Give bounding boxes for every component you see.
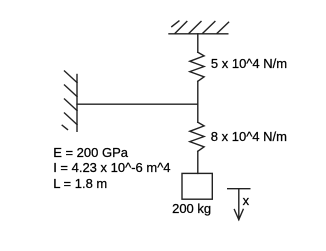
ceiling hatch 4 bbox=[217, 22, 229, 33]
label spring k2 value bbox=[211, 130, 287, 143]
mass block 200 kg bbox=[182, 173, 212, 199]
wall hatch 2 bbox=[65, 85, 78, 97]
ceiling hatch 2 bbox=[189, 22, 201, 34]
cantilever beam bbox=[77, 103, 198, 105]
ceiling fixed support plate bbox=[169, 33, 228, 35]
spring k2 (8 x 10^4 N/m) bbox=[190, 122, 204, 151]
x coordinate arrow shaft bbox=[238, 189, 240, 220]
ceiling hatch partial bbox=[172, 21, 179, 27]
wire spring k1 to beam bbox=[197, 81, 199, 104]
wall fixed support line bbox=[76, 75, 78, 132]
wire ceiling to spring k1 bbox=[197, 34, 199, 52]
label mass value bbox=[172, 202, 211, 215]
wall hatch 1 bbox=[65, 71, 78, 83]
ceiling hatch 1 bbox=[175, 22, 187, 34]
ceiling hatch 3 bbox=[203, 22, 215, 34]
label beam properties E I L bbox=[53, 145, 170, 191]
label x coordinate bbox=[243, 194, 250, 207]
wire beam to spring k2 bbox=[197, 104, 199, 122]
label spring k1 value bbox=[211, 57, 287, 70]
wall hatch 4 bbox=[65, 113, 78, 125]
wall hatch 3 bbox=[65, 99, 78, 111]
x coordinate arrow datum bar bbox=[228, 188, 250, 190]
x coordinate arrowhead bbox=[234, 209, 243, 219]
wall hatch partial bbox=[62, 125, 67, 129]
wire spring k2 to mass bbox=[197, 151, 199, 173]
spring k1 (5 x 10^4 N/m) bbox=[190, 52, 204, 81]
